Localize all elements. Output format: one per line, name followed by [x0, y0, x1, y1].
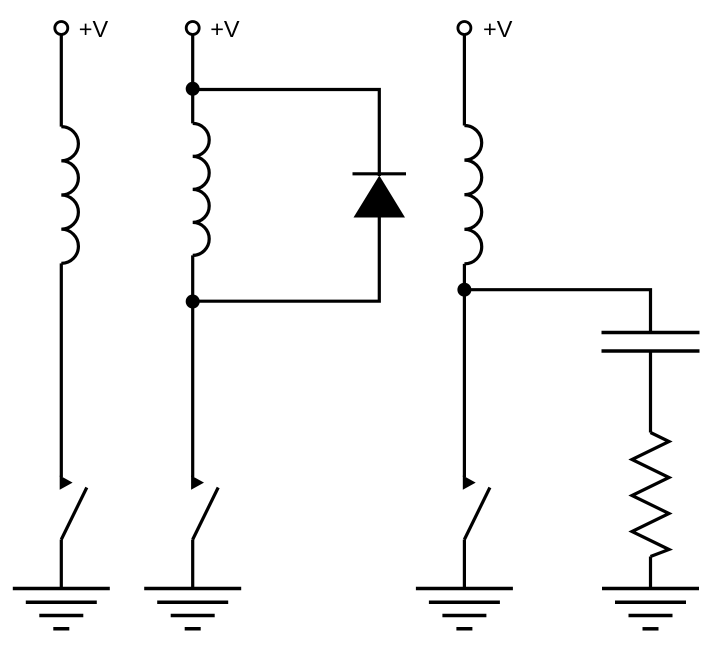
ground (circuit 3): [416, 589, 513, 629]
switch SW3: [463, 476, 476, 490]
node dot top: [186, 82, 200, 96]
switch SW1: [60, 476, 73, 490]
ground (circuit 2): [144, 589, 241, 629]
wire: [463, 35, 466, 125]
inductor L2: [193, 123, 210, 255]
inductor L3: [464, 126, 481, 264]
wire diode to bottom rail: [193, 215, 380, 301]
terminal +V (circuit 2): [186, 22, 199, 35]
wire: [60, 540, 63, 590]
node dot: [457, 283, 471, 297]
wire: [191, 255, 194, 477]
wire: [60, 263, 63, 477]
wire to snubber: [464, 290, 650, 333]
resistor R1: [632, 433, 669, 557]
circuit 3: inductor with RC snubber + switch: [416, 22, 700, 629]
circuit 1: plain inductor + switch: [13, 22, 110, 629]
circuit 2: inductor with flyback diode + switch: [144, 22, 406, 629]
wire: [649, 557, 652, 590]
diode D1: [353, 172, 407, 175]
ground (circuit 1): [13, 589, 110, 629]
inductor L1: [61, 127, 78, 264]
wire: [649, 351, 652, 433]
wire: [463, 540, 466, 590]
terminal +V (circuit 1): [55, 22, 68, 35]
capacitor C1: [602, 333, 700, 352]
svg-text:+V: +V: [79, 16, 109, 42]
wire: [463, 264, 466, 477]
wire: [191, 35, 194, 123]
wire: [60, 35, 63, 126]
node dot bottom: [186, 295, 200, 309]
terminal +V (circuit 3): [458, 22, 471, 35]
ground (snubber branch): [602, 589, 699, 629]
svg-text:+V: +V: [210, 16, 240, 42]
wire: [191, 540, 194, 590]
switch SW2: [191, 476, 204, 490]
svg-text:+V: +V: [483, 16, 513, 42]
wire top rail: [193, 90, 380, 177]
